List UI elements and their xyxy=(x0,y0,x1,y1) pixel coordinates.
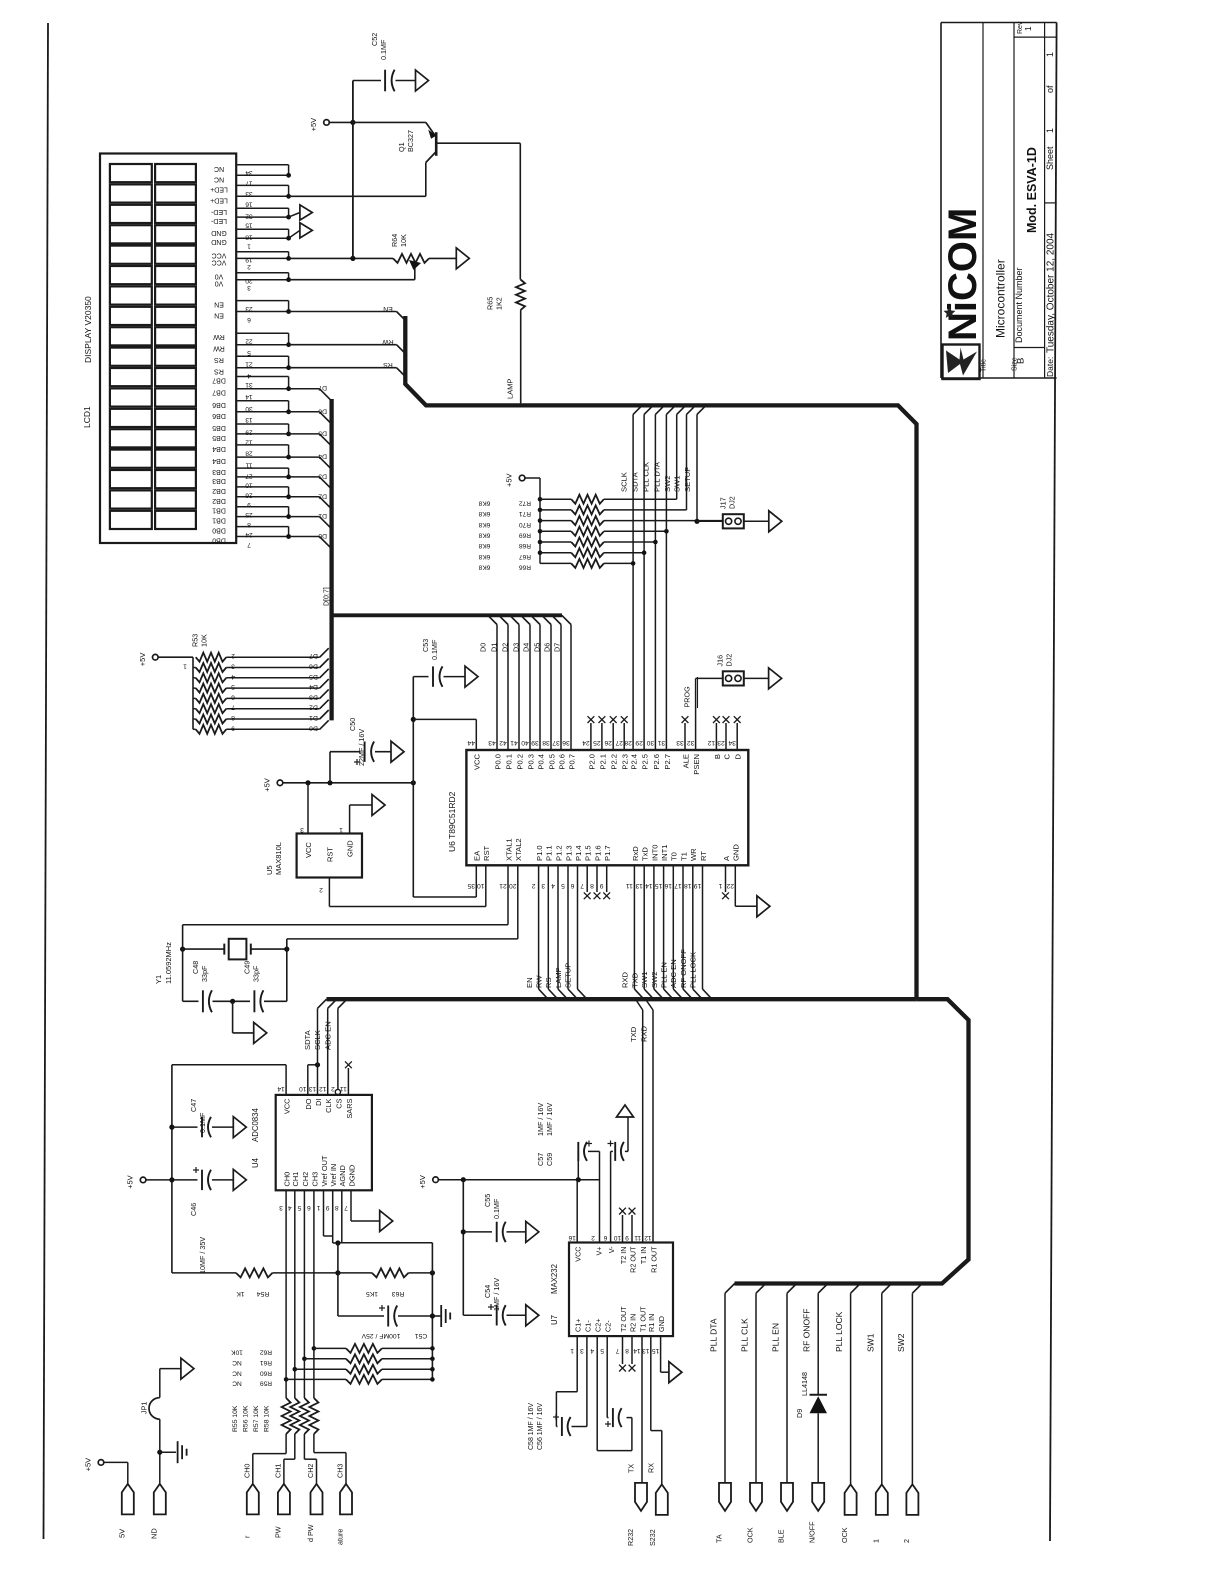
U7 pin 3 C1- xyxy=(580,1320,593,1354)
svg-text:14: 14 xyxy=(645,882,653,889)
svg-text:1: 1 xyxy=(871,1539,880,1543)
svg-text:D1: D1 xyxy=(318,512,327,519)
U7 pin 9 R2 OUT xyxy=(625,1234,638,1273)
resistor R69 6K8 xyxy=(478,527,668,539)
svg-text:MAX810L: MAX810L xyxy=(274,842,283,875)
svg-text:42: 42 xyxy=(499,739,507,746)
U6 pin 31 P2.7 xyxy=(657,405,675,769)
svg-text:PLL EN: PLL EN xyxy=(660,962,669,988)
wire GND connector to earth and JP1 xyxy=(157,1450,176,1484)
wire SW2 from bus to connector xyxy=(912,1284,922,1485)
svg-text:PLL LOCK: PLL LOCK xyxy=(834,1311,844,1352)
svg-text:24: 24 xyxy=(245,531,253,538)
U4 pin 5 CH2 xyxy=(297,1172,310,1211)
svg-text:GND: GND xyxy=(732,844,741,861)
connector J16 DJ2 (PROG jumper) xyxy=(723,671,744,685)
SDTA SCLK ADC EN net labels xyxy=(303,1021,333,1050)
svg-text:SARS: SARS xyxy=(345,1098,354,1118)
svg-text:SW2: SW2 xyxy=(650,972,659,988)
U7 pin 4 C2+ xyxy=(590,1319,603,1354)
svg-text:32: 32 xyxy=(245,213,253,220)
svg-text:PLL LOCK: PLL LOCK xyxy=(689,952,698,988)
svg-text:RT: RT xyxy=(699,851,708,861)
capacitor C54 1MF/16V xyxy=(463,1304,526,1326)
resistor R59 NC xyxy=(232,1375,435,1387)
D9 labels xyxy=(795,1372,809,1418)
SCLK/SDTA/PLL CLK/PLL DTA net labels near bus xyxy=(619,461,692,492)
svg-text:+5V: +5V xyxy=(126,1175,135,1189)
svg-text:3: 3 xyxy=(541,882,545,889)
svg-text:C1-: C1- xyxy=(583,1320,592,1332)
wire RF ONOFF from bus to connector xyxy=(818,1284,828,1483)
svg-text:D: D xyxy=(734,753,743,759)
U7 designator and value labels xyxy=(550,1264,559,1325)
D4 net label at LCD xyxy=(318,453,327,460)
U6 pin 20 XTAL2 xyxy=(509,838,523,939)
wire +5V rail to U5 and U6 xyxy=(283,780,416,785)
svg-text:DB0: DB0 xyxy=(212,537,226,544)
wire RS net from LCD to bus xyxy=(289,368,406,377)
svg-text:28: 28 xyxy=(245,449,253,456)
svg-text:DI: DI xyxy=(314,1099,323,1106)
svg-text:28: 28 xyxy=(624,739,632,746)
svg-text:LAMP: LAMP xyxy=(506,379,515,399)
svg-text:Vref OUT: Vref OUT xyxy=(320,1155,329,1186)
svg-text:11: 11 xyxy=(634,1234,641,1241)
svg-text:1MF / 16V: 1MF / 16V xyxy=(545,1103,554,1136)
net labels at U6 serial port wires xyxy=(621,949,698,988)
svg-text:Vref IN: Vref IN xyxy=(329,1164,338,1187)
wire U4 VCC to +5V rail xyxy=(172,1065,286,1095)
wire CH3 from U4 to connector xyxy=(313,1190,315,1398)
resistor R70 6K8 xyxy=(478,516,722,528)
capacitor C48 33pF xyxy=(183,990,233,1012)
wire D4 net from LCD to data bus xyxy=(289,457,332,469)
svg-text:12: 12 xyxy=(319,1085,327,1092)
svg-text:EN: EN xyxy=(383,305,393,312)
wire U7 GND to ground arrow xyxy=(661,1336,669,1372)
svg-text:RW: RW xyxy=(213,333,225,340)
svg-text:40: 40 xyxy=(521,739,529,746)
thick bus right lower run to PLL connectors xyxy=(735,999,969,1283)
svg-text:VCC: VCC xyxy=(304,842,313,858)
ground arrow at crystal caps xyxy=(254,1022,267,1043)
connector CH1 xyxy=(274,1464,290,1538)
data bus D[0:7] thick vertical xyxy=(329,399,333,720)
svg-text:C54: C54 xyxy=(483,1285,492,1298)
C49 label xyxy=(243,961,261,982)
svg-text:PLL EN: PLL EN xyxy=(771,1323,781,1352)
svg-text:P0.2: P0.2 xyxy=(515,754,524,770)
U6 pin 4 P1.2 xyxy=(551,845,568,999)
wire TXD from bus to U7 T1IN xyxy=(636,999,643,1242)
svg-text:21: 21 xyxy=(499,882,507,889)
svg-text:+5V: +5V xyxy=(263,778,272,792)
U6 pin 10 RST xyxy=(477,845,491,906)
U7 T2OUT R2IN no connects xyxy=(619,1336,635,1371)
wire +5V vertical rail x=353 xyxy=(352,81,354,259)
svg-text:7: 7 xyxy=(231,704,235,711)
PLL CLK net label xyxy=(740,1318,750,1352)
svg-text:D4: D4 xyxy=(521,643,530,652)
svg-text:LED-: LED- xyxy=(210,208,227,215)
connector RF ONOFF xyxy=(808,1483,825,1543)
U6 pin 26 P2.2 xyxy=(604,716,618,769)
svg-text:14: 14 xyxy=(277,1085,285,1092)
U4 designator and value labels xyxy=(251,1108,260,1168)
svg-text:DB2: DB2 xyxy=(212,497,226,504)
svg-text:DISPLAY V20350: DISPLAY V20350 xyxy=(83,296,93,363)
svg-text:15: 15 xyxy=(652,1347,660,1354)
svg-text:1K: 1K xyxy=(236,1290,245,1297)
D6 net label at LCD xyxy=(318,407,327,414)
R65 label xyxy=(486,297,504,310)
svg-text:V0: V0 xyxy=(215,280,224,287)
svg-text:C2-: C2- xyxy=(604,1320,613,1332)
svg-text:NC: NC xyxy=(232,1380,242,1387)
svg-text:D[0:7]: D[0:7] xyxy=(323,587,330,606)
svg-text:D5: D5 xyxy=(532,643,541,652)
svg-text:+5V: +5V xyxy=(138,653,147,667)
resistor R63 1K5 xyxy=(338,1268,435,1277)
NICOM logo box xyxy=(943,345,980,380)
connector PLL EN xyxy=(777,1483,794,1543)
U6 pin 27 P2.3 xyxy=(615,716,629,769)
D1 net label at LCD xyxy=(318,512,327,519)
svg-text:P0.1: P0.1 xyxy=(504,754,513,770)
U4 pin 4 CH1 xyxy=(288,1172,301,1211)
U6 pin 3 P1.1 xyxy=(541,845,558,999)
svg-text:RST: RST xyxy=(482,845,491,861)
svg-text:GND: GND xyxy=(657,1316,666,1332)
svg-text:R72: R72 xyxy=(519,499,531,506)
middle thick bus horizontal y=999 xyxy=(327,997,917,1001)
svg-text:R67: R67 xyxy=(519,553,531,560)
svg-text:9: 9 xyxy=(625,1234,629,1241)
svg-text:34: 34 xyxy=(728,739,736,746)
J17 labels xyxy=(719,496,737,509)
ground arrow after C52 xyxy=(416,70,429,91)
svg-text:R59: R59 xyxy=(260,1380,272,1387)
U6 pin 43 P0.0 xyxy=(478,615,502,769)
svg-text:16: 16 xyxy=(245,201,253,208)
D0 net label at LCD xyxy=(318,532,327,539)
wire SDTA from U4 DI to bus xyxy=(318,999,327,1095)
+5V power symbol at R66-R72 xyxy=(505,473,525,487)
page border right xyxy=(1050,23,1057,1542)
U6 pin 36 P0.7 xyxy=(552,615,576,769)
svg-text:13: 13 xyxy=(635,882,643,889)
svg-text:8: 8 xyxy=(590,882,594,889)
svg-text:6: 6 xyxy=(247,316,251,323)
U6 pin 12 B xyxy=(707,716,721,759)
svg-text:V-: V- xyxy=(607,1246,616,1253)
svg-text:ADC EN: ADC EN xyxy=(669,959,678,988)
wire AGND to Vref node rail xyxy=(338,1190,433,1242)
U7 pin 5 C2- xyxy=(600,1320,613,1354)
svg-text:10K: 10K xyxy=(399,234,408,247)
LCD1 pin pair DB1 pins 25/8 xyxy=(212,507,291,528)
connector RX S232 xyxy=(648,1484,668,1546)
svg-text:16: 16 xyxy=(664,882,672,889)
svg-text:6: 6 xyxy=(570,882,574,889)
U6 pin 21 XTAL1 xyxy=(499,838,513,924)
svg-text:1: 1 xyxy=(1045,52,1055,57)
svg-text:+5V: +5V xyxy=(505,473,514,487)
connector CH0 xyxy=(243,1464,259,1538)
svg-text:V+: V+ xyxy=(595,1247,604,1256)
svg-text:P1.6: P1.6 xyxy=(593,845,602,861)
svg-text:P1.0: P1.0 xyxy=(535,845,544,861)
svg-text:2: 2 xyxy=(319,886,323,893)
ground arrow for LED- net xyxy=(289,205,313,220)
U4 pin 11 SARS xyxy=(340,1085,354,1119)
svg-text:D6: D6 xyxy=(318,407,327,414)
svg-text:SW2: SW2 xyxy=(663,476,672,492)
U4 pin 14 VCC xyxy=(277,1085,291,1114)
title block document number Mod. ESVA-1D xyxy=(1025,147,1039,233)
svg-text:9: 9 xyxy=(326,1204,330,1211)
svg-text:11: 11 xyxy=(626,882,633,889)
svg-text:P1.7: P1.7 xyxy=(603,845,612,861)
U7 pin 1 C1+ xyxy=(570,1319,583,1354)
connector PLL DTA xyxy=(715,1483,732,1543)
svg-text:R69: R69 xyxy=(519,532,531,539)
U6 pin 5 P1.3 xyxy=(561,845,578,999)
svg-text:TA: TA xyxy=(715,1534,724,1543)
svg-text:Q1: Q1 xyxy=(397,142,406,152)
U6 pin 17 T1 xyxy=(674,852,692,999)
capacitor C53 0.1MF xyxy=(413,666,465,686)
data bus label D[0:7] xyxy=(323,587,330,606)
+5V power symbol top (Q1 area) xyxy=(309,118,329,132)
wire D1 net from LCD to data bus xyxy=(289,517,332,529)
title block Sheet label xyxy=(1045,52,1055,170)
svg-text:EA: EA xyxy=(473,850,482,861)
svg-text:1: 1 xyxy=(183,663,187,670)
SW1 net label xyxy=(865,1333,875,1352)
svg-text:29: 29 xyxy=(635,739,643,746)
svg-text:4: 4 xyxy=(288,1204,292,1211)
wire PLL EN from bus to connector xyxy=(787,1284,797,1483)
U4 pin 1 Vref OUT xyxy=(316,1155,329,1211)
svg-text:P2.3: P2.3 xyxy=(621,754,630,770)
crystal Y1 11.0592MHz xyxy=(180,939,289,960)
U6 pin 24 P2.0 xyxy=(582,716,596,769)
svg-text:38: 38 xyxy=(542,739,550,746)
data bus thick horizontal branch to U6 port0 xyxy=(332,613,562,617)
svg-text:44: 44 xyxy=(467,739,475,746)
svg-text:C48: C48 xyxy=(191,961,200,974)
svg-text:SW1: SW1 xyxy=(640,972,649,988)
U5 labels xyxy=(265,840,355,875)
U4 pin 7 DGND xyxy=(344,1165,357,1211)
svg-text:U7: U7 xyxy=(550,1315,559,1325)
svg-text:RF ONOFF: RF ONOFF xyxy=(802,1309,812,1352)
wire D7 net from LCD to data bus xyxy=(289,389,332,401)
title block title text Microcontroller xyxy=(994,259,1008,338)
svg-text:2: 2 xyxy=(531,882,535,889)
wire U7 VCC to +5V xyxy=(576,1180,578,1243)
svg-text:D1: D1 xyxy=(489,643,498,652)
svg-text:C49: C49 xyxy=(243,961,252,974)
rail x=432 from Vref wire to R59-62 xyxy=(431,1243,433,1380)
svg-text:CH1: CH1 xyxy=(291,1172,300,1187)
svg-text:26: 26 xyxy=(245,491,253,498)
IC U6 T89C51RD2 box xyxy=(466,750,748,865)
net labels at U6 P1 port wires xyxy=(525,963,573,988)
svg-text:9: 9 xyxy=(231,724,235,731)
U5 pin 3 VCC wire xyxy=(300,783,308,834)
svg-text:C53: C53 xyxy=(421,639,430,652)
ground arrow after C46 xyxy=(233,1169,246,1190)
U6 pin 19 RT xyxy=(694,851,712,1000)
svg-text:+5V: +5V xyxy=(309,118,318,132)
PLL DTA net label xyxy=(709,1318,719,1352)
U6 pin 30 P2.6 xyxy=(646,405,664,769)
U4 pin 2 CS xyxy=(331,1085,344,1109)
+5V power symbol at U4 xyxy=(126,1175,146,1189)
svg-text:1MF / 16V: 1MF / 16V xyxy=(492,1278,501,1311)
svg-text:P0.6: P0.6 xyxy=(557,754,566,770)
power arrow at C59 xyxy=(617,1105,634,1117)
resistor network R53 10K x8 pullups xyxy=(196,648,329,662)
svg-text:C59: C59 xyxy=(545,1153,554,1166)
U6 pin 14 INT0 xyxy=(645,845,663,1000)
svg-text:EN: EN xyxy=(214,301,224,308)
svg-text:C: C xyxy=(722,753,731,759)
svg-text:XTAL2: XTAL2 xyxy=(514,838,523,861)
svg-text:3: 3 xyxy=(580,1347,584,1354)
svg-text:CH3: CH3 xyxy=(336,1464,345,1478)
wire CH1 from U4 to connector xyxy=(294,1190,296,1398)
title block Document Number label xyxy=(1014,267,1024,343)
wire V0 net to R64 wiper xyxy=(289,267,415,280)
svg-text:7: 7 xyxy=(247,541,251,548)
svg-text:41: 41 xyxy=(510,739,518,746)
svg-text:Tuesday, October 12, 2004: Tuesday, October 12, 2004 xyxy=(1046,232,1057,353)
svg-text:C51: C51 xyxy=(415,1332,428,1339)
wire RXD from bus to U7 R1OUT xyxy=(646,999,654,1242)
wire VCC net to R64 xyxy=(289,256,393,261)
svg-text:LL4148: LL4148 xyxy=(800,1372,809,1396)
C48 label xyxy=(191,961,209,982)
U6 pin 35 EA xyxy=(413,850,481,897)
svg-text:25: 25 xyxy=(593,739,601,746)
upper thick bus (LAMP/EN/RW/RS collector) xyxy=(405,316,916,999)
LCD1 designator label xyxy=(82,406,92,428)
U4 pin 9 Vref IN xyxy=(326,1164,339,1211)
wire SW1 net from bus to R71 xyxy=(687,405,696,510)
svg-text:DB4: DB4 xyxy=(212,457,226,464)
svg-text:TX: TX xyxy=(627,1464,636,1473)
resistor R72 6K8 xyxy=(478,495,676,507)
RW net label xyxy=(382,338,394,345)
svg-text:ADC0834: ADC0834 xyxy=(251,1108,260,1142)
svg-text:ature: ature xyxy=(336,1529,345,1545)
svg-text:U4: U4 xyxy=(251,1157,260,1168)
svg-text:LCD1: LCD1 xyxy=(82,406,92,428)
svg-text:23: 23 xyxy=(717,739,725,746)
+5V power symbol at U7 xyxy=(418,1175,438,1189)
svg-text:R54: R54 xyxy=(257,1290,270,1297)
LCD1 pin pair DB0 pins 24/7 xyxy=(212,527,291,548)
wire U6 pin44 VCC to +5V rail xyxy=(413,719,476,750)
LCD1 pin pair DB2 pins 26/9 xyxy=(212,487,291,508)
resistor R64 (LCD contrast) xyxy=(393,254,456,270)
svg-text:D6: D6 xyxy=(542,643,551,652)
LCD1 pin pair DB5 pins 29/12 xyxy=(212,424,291,445)
svg-text:24: 24 xyxy=(582,739,590,746)
svg-text:SETUP: SETUP xyxy=(564,963,573,988)
svg-text:1: 1 xyxy=(1023,26,1033,31)
svg-text:2: 2 xyxy=(247,263,251,270)
LCD1 pin pair DB6 pins 30/13 xyxy=(212,401,291,423)
svg-text:31: 31 xyxy=(657,739,665,746)
PLL LOCK net label xyxy=(834,1311,844,1352)
U6 pin 6 P1.4 xyxy=(570,845,587,999)
capacitor C59 1MF/16V (V- pump) xyxy=(608,1117,629,1243)
svg-text:C50: C50 xyxy=(348,718,357,731)
svg-text:0.1MF: 0.1MF xyxy=(492,1198,501,1219)
svg-text:RW: RW xyxy=(382,338,394,345)
svg-text:MAX232: MAX232 xyxy=(550,1264,559,1294)
Q1 label xyxy=(397,130,415,152)
svg-text:CH0: CH0 xyxy=(243,1464,252,1478)
capacitor C55 0.1MF xyxy=(463,1222,526,1242)
svg-text:R1 OUT: R1 OUT xyxy=(649,1246,658,1273)
U7 pin 7 T2 OUT xyxy=(615,1306,628,1354)
svg-text:SW2: SW2 xyxy=(896,1333,906,1352)
svg-text:S232: S232 xyxy=(648,1529,657,1546)
svg-text:7: 7 xyxy=(615,1347,619,1354)
svg-text:DB5: DB5 xyxy=(212,424,226,431)
svg-text:DB7: DB7 xyxy=(212,377,226,384)
svg-text:RW: RW xyxy=(535,975,544,988)
U4 CS inversion bubble xyxy=(335,1089,340,1094)
U6 pin 13 TxD xyxy=(635,847,653,1000)
svg-text:DB6: DB6 xyxy=(212,412,226,419)
svg-text:CLK: CLK xyxy=(324,1098,333,1112)
U6 pin 32 PSEN xyxy=(687,678,701,774)
svg-text:D0: D0 xyxy=(318,532,327,539)
svg-text:27: 27 xyxy=(615,739,623,746)
svg-text:D2: D2 xyxy=(309,704,318,711)
svg-text:7: 7 xyxy=(344,1204,348,1211)
resistor R54 1K xyxy=(172,1268,341,1277)
svg-text:7: 7 xyxy=(580,882,584,889)
R53 common rail xyxy=(192,657,194,729)
svg-text:2: 2 xyxy=(331,1085,335,1092)
svg-text:1: 1 xyxy=(718,882,722,889)
svg-text:CS: CS xyxy=(334,1098,343,1108)
svg-text:D7: D7 xyxy=(318,384,327,391)
svg-text:NC: NC xyxy=(214,175,224,182)
svg-text:D3: D3 xyxy=(309,693,318,700)
svg-text:BC327: BC327 xyxy=(406,130,415,152)
svg-text:P2.2: P2.2 xyxy=(610,754,619,770)
connector CH2 xyxy=(306,1464,323,1542)
connector 5V xyxy=(118,1484,134,1538)
R54 label xyxy=(236,1290,269,1297)
svg-text:D4: D4 xyxy=(318,453,327,460)
wire EN net from LCD to bus xyxy=(289,312,406,321)
svg-text:8: 8 xyxy=(335,1204,339,1211)
wire DGND to ground xyxy=(351,1190,380,1221)
svg-text:26: 26 xyxy=(604,739,612,746)
svg-text:10MF / 35V: 10MF / 35V xyxy=(198,1237,207,1274)
svg-text:GND: GND xyxy=(346,840,355,857)
